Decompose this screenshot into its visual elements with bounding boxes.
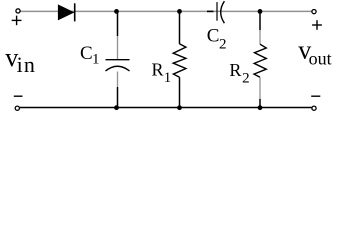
- label C2: [207, 25, 227, 52]
- wire black stub before C2: [207, 10, 214, 12]
- label + input polarity: [12, 16, 22, 26]
- node junction bottom R2: [258, 105, 263, 110]
- label v_in: [5, 43, 36, 77]
- label + output polarity: [312, 20, 322, 30]
- terminal input + (top-left circle): [16, 9, 20, 13]
- node junction bottom C1: [114, 105, 119, 110]
- terminal input - (bottom-left circle): [15, 106, 19, 110]
- label R2: [229, 60, 249, 86]
- label - output polarity: [311, 95, 320, 97]
- svg-text:2: 2: [219, 37, 227, 53]
- svg-text:R: R: [229, 60, 241, 80]
- wire top rail: [21, 10, 313, 12]
- label R1: [152, 60, 172, 86]
- label - input polarity: [14, 95, 23, 97]
- capacitor C1: [106, 60, 130, 71]
- node junction top R2: [258, 9, 263, 14]
- wire R1 top lead: [179, 11, 181, 44]
- label v_out: [298, 36, 331, 69]
- capacitor C2: [217, 1, 224, 23]
- resistor R2: [254, 44, 266, 77]
- wire bottom rail: [20, 107, 312, 109]
- label C1: [80, 43, 100, 68]
- node junction top C1: [114, 9, 119, 14]
- terminal output + (top-right circle): [312, 10, 316, 14]
- wire C1 top lead: [117, 11, 119, 59]
- node junction bottom R1: [177, 105, 182, 110]
- svg-text:C: C: [207, 25, 220, 46]
- svg-text:R: R: [152, 60, 164, 80]
- terminal output - (bottom-right circle): [312, 106, 316, 110]
- diode D1: [58, 3, 74, 21]
- wire R2 top lead: [259, 11, 261, 44]
- svg-text:1: 1: [164, 70, 172, 86]
- svg-text:1: 1: [92, 52, 100, 68]
- wire R2 bottom lead: [259, 77, 261, 107]
- svg-text:out: out: [309, 49, 332, 69]
- svg-text:C: C: [80, 43, 93, 64]
- wire C1 bottom lead: [117, 72, 119, 108]
- node junction top R1: [177, 9, 182, 14]
- svg-text:2: 2: [242, 70, 250, 86]
- resistor R1: [173, 44, 186, 77]
- wire R1 bottom lead: [179, 77, 181, 107]
- svg-text:in: in: [17, 52, 37, 77]
